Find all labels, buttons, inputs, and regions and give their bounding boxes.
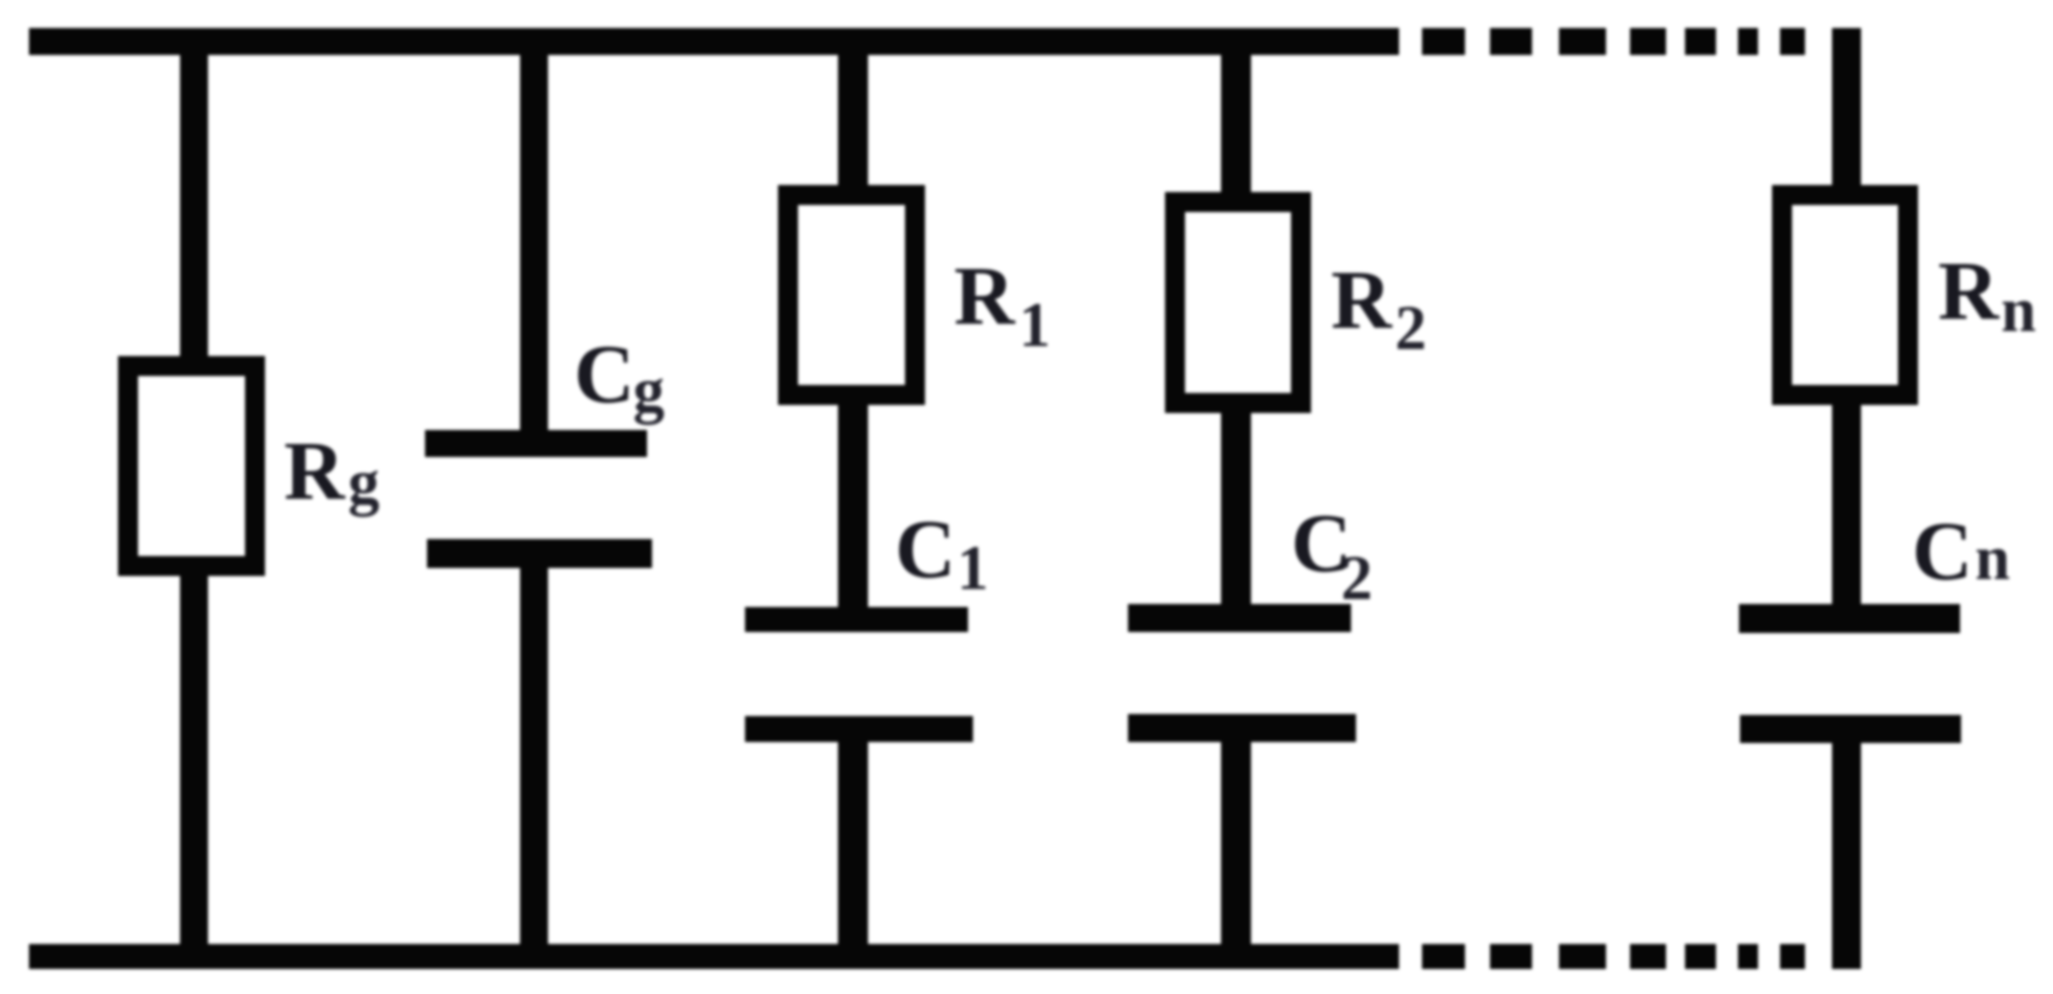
wire bottom bus rail (solid) bbox=[29, 944, 1399, 969]
capacitor C1 bottom plate bbox=[745, 716, 973, 742]
wire branch5 middle (Rn to Cn) bbox=[1832, 405, 1861, 604]
wire branch4 bottom (C2 to rail) bbox=[1221, 742, 1251, 951]
wire bottom bus rail dashed continuation bbox=[1422, 944, 1465, 969]
resistor Rn bbox=[1772, 185, 1918, 405]
capacitor C1 top plate bbox=[745, 607, 968, 632]
label C2 bbox=[1291, 502, 1352, 586]
wire branch1 bottom (Rg to rail) bbox=[180, 576, 208, 951]
wire branch3 middle (R1 to C1) bbox=[838, 405, 868, 607]
wire branch2 bottom (Cg to rail) bbox=[520, 568, 548, 951]
wire branch4 middle (R2 to C2) bbox=[1221, 413, 1251, 604]
label Cn bbox=[1912, 510, 1973, 594]
wire branch1 top (rail to Rg) bbox=[180, 50, 208, 356]
capacitor Cg top plate bbox=[425, 430, 647, 457]
label Cg bbox=[574, 333, 635, 417]
capacitor Cn bottom plate bbox=[1740, 715, 1961, 743]
capacitor C2 bottom plate bbox=[1128, 714, 1356, 742]
capacitor Cg bottom plate bbox=[427, 539, 652, 568]
wire branch5 top (rail to Rn) bbox=[1832, 28, 1861, 185]
label C1 bbox=[895, 508, 956, 592]
wire branch3 bottom (C1 to rail) bbox=[838, 742, 868, 951]
wire top bus rail (solid) bbox=[29, 28, 1399, 55]
label Rn bbox=[1938, 250, 1999, 334]
wire branch2 top (rail to Cg) bbox=[520, 50, 548, 430]
capacitor Cn top plate bbox=[1739, 604, 1960, 633]
resistor R1 bbox=[778, 185, 925, 405]
label R1 bbox=[954, 255, 1015, 339]
wire branch5 bottom (Cn to rail) bbox=[1832, 743, 1861, 969]
wire top bus rail dashed continuation bbox=[1422, 28, 1465, 55]
wire branch3 top (rail to R1) bbox=[838, 50, 868, 185]
wire branch4 top (rail to R2) bbox=[1221, 50, 1251, 192]
resistor R2 bbox=[1165, 192, 1311, 413]
resistor Rg bbox=[118, 356, 265, 576]
label R2 bbox=[1331, 259, 1392, 343]
capacitor C2 top plate bbox=[1128, 604, 1351, 632]
label Rg bbox=[284, 430, 345, 514]
